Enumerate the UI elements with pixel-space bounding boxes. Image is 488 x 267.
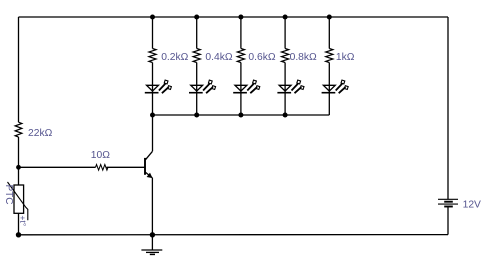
wire left rail middle (18, 137, 20, 185)
svg-text:22kΩ: 22kΩ (28, 128, 53, 139)
resistor branch 5 wires (328, 17, 330, 115)
LED D4 (277, 80, 304, 93)
node dot bottom left (16, 232, 21, 237)
wire collector (152, 115, 154, 151)
resistor branch 4 wires (284, 17, 286, 115)
svg-text:12V: 12V (463, 199, 481, 210)
transistor Q1 base bar (144, 158, 146, 175)
svg-text:0.2kΩ: 0.2kΩ (161, 52, 188, 63)
wire right rail lower (battery to bottom) (447, 207, 449, 235)
thermistor PTC body (14, 185, 24, 213)
resistor branch 2 wires (196, 17, 198, 115)
thermistor PTC diagonal (8, 182, 28, 220)
resistor branch 3 wires (240, 17, 242, 115)
svg-text:0.6kΩ: 0.6kΩ (248, 52, 275, 63)
node dots top rail (150, 15, 332, 20)
wire left rail lower (18, 213, 20, 235)
wire base (19, 166, 96, 168)
battery BT1 12V (438, 199, 458, 206)
wire emitter to bottom (151, 178, 153, 235)
wire top rail (19, 16, 449, 18)
LED D2 (189, 80, 216, 93)
LED D5 (322, 80, 349, 93)
wire LED cathode bus (153, 114, 330, 116)
svg-text:10Ω: 10Ω (91, 150, 110, 161)
wire base right of 10R (107, 166, 146, 168)
resistor branch 1 wires (152, 17, 154, 115)
resistor R1 0.2k zigzag (149, 49, 156, 63)
LED D1 (145, 80, 172, 93)
resistor R2 0.4k zigzag (193, 49, 200, 63)
svg-text:0.4kΩ: 0.4kΩ (205, 52, 232, 63)
node dots LED bus (150, 113, 288, 118)
LED D3 (233, 80, 260, 93)
transistor Q1 collector diagonal (145, 151, 152, 160)
ground symbol (141, 235, 162, 255)
wire left rail upper (18, 17, 20, 122)
svg-text:1kΩ: 1kΩ (336, 52, 355, 63)
node dot base tap (16, 165, 21, 170)
svg-text:0.8kΩ: 0.8kΩ (290, 52, 317, 63)
wire right rail upper (to battery) (447, 17, 449, 199)
resistor R4 0.8k zigzag (282, 49, 289, 63)
svg-text:+t°: +t° (18, 216, 28, 227)
node dot emitter ground (150, 232, 155, 237)
resistor R6 22k zigzag (15, 122, 22, 137)
resistor R7 10R zigzag (horizontal) (96, 164, 108, 170)
transistor Q1 emitter diagonal with arrow (145, 172, 152, 178)
resistor R5 1k zigzag (326, 49, 333, 63)
resistor R3 0.6k zigzag (237, 49, 244, 63)
wire bottom rail (19, 234, 449, 236)
svg-text:PTC: PTC (3, 185, 14, 205)
